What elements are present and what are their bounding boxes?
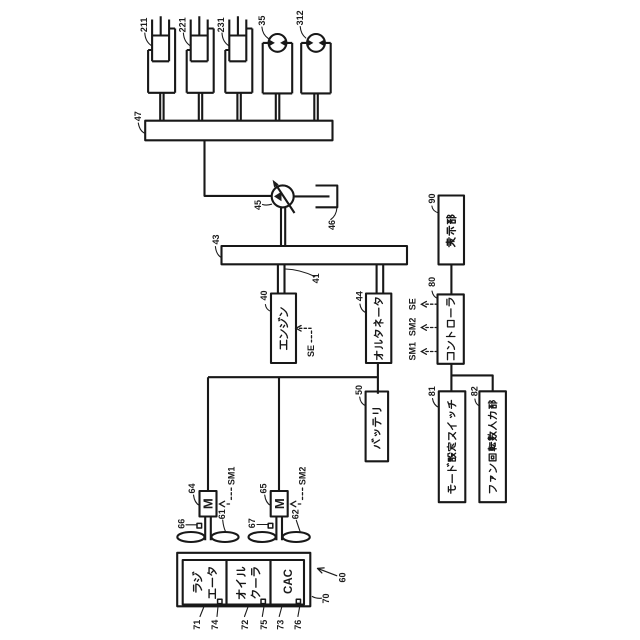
leader 40: [265, 305, 271, 312]
leader 74: [217, 607, 218, 617]
svg-text:312: 312: [295, 10, 305, 25]
dashed arrow SE to engine 40: [296, 326, 312, 343]
leader 44: [360, 304, 366, 313]
leader 90: [432, 206, 439, 213]
leader 35: [262, 27, 268, 39]
label 90: [427, 193, 437, 203]
mode setting switch 81 box: [439, 391, 466, 502]
svg-text:44: 44: [355, 291, 365, 301]
svg-text:66: 66: [176, 519, 186, 529]
fan 61 shaft: [205, 517, 211, 541]
svg-text:65: 65: [258, 483, 268, 493]
shaft 43: [222, 246, 408, 264]
leader 80: [432, 291, 438, 299]
svg-text:46: 46: [327, 220, 337, 230]
label 50: [354, 385, 364, 395]
label 73: [276, 620, 286, 630]
leader 76: [298, 607, 300, 617]
wire controller 80 to switch 81 and input 82: [451, 364, 492, 392]
alternator 44 box: [366, 294, 391, 364]
control valve 47: [145, 121, 332, 141]
leader 75: [262, 607, 264, 617]
leader 65: [265, 495, 271, 506]
svg-text:73: 73: [276, 620, 286, 630]
svg-text:231: 231: [216, 17, 226, 32]
svg-text:SM2: SM2: [298, 467, 308, 486]
text fan speed input unit in box 82: [488, 401, 497, 493]
label SM1 at fan motor 64: [226, 467, 236, 486]
label 70: [321, 593, 331, 603]
label 40: [259, 290, 269, 300]
dashed arrow SE to controller 80: [421, 301, 437, 307]
leader 231: [222, 33, 229, 46]
label 211: [139, 18, 149, 33]
label 66: [176, 519, 186, 529]
leader 73: [279, 607, 282, 617]
display unit 90 box: [439, 196, 465, 265]
leader 67: [257, 524, 268, 526]
oil cooler 72 box: [227, 560, 271, 605]
dashed arrow SM2 to fan motor 65: [291, 488, 303, 507]
svg-text:45: 45: [253, 200, 263, 210]
label 312: [295, 10, 305, 25]
dashed arrow SM2 to controller 80: [421, 325, 437, 331]
text controller (kontoroora) in box 80: [447, 298, 455, 359]
label 60: [338, 572, 348, 582]
label 44: [355, 291, 365, 301]
svg-text:75: 75: [259, 620, 269, 630]
leader 66: [186, 524, 197, 526]
leader 312: [300, 27, 306, 39]
svg-text:35: 35: [257, 16, 267, 26]
sensor square 74: [218, 599, 222, 603]
sensor square 67: [268, 523, 273, 528]
label CAC in box 73: [283, 569, 295, 594]
svg-text:50: 50: [354, 385, 364, 395]
label 80: [427, 277, 437, 287]
svg-text:72: 72: [240, 620, 250, 630]
fan 62 blades: [249, 532, 310, 542]
svg-text:61: 61: [217, 509, 227, 519]
svg-text:82: 82: [469, 386, 479, 396]
dashed arrow SM1 to controller 80: [421, 349, 437, 355]
svg-text:70: 70: [321, 593, 331, 603]
label M in box 65: [272, 498, 287, 509]
label 62: [291, 509, 301, 519]
sensor square 76: [296, 599, 300, 603]
leader 211: [145, 33, 152, 46]
label SM1 at controller: [408, 342, 418, 361]
leader 41: [286, 269, 315, 277]
text mode setting switch in box 81: [447, 400, 456, 493]
label 45: [253, 200, 263, 210]
wire pipes motor 312 to valve 47: [314, 93, 318, 120]
label SM2 at controller: [408, 318, 418, 337]
svg-text:43: 43: [211, 234, 221, 244]
text engine (enjin) in box 40: [278, 308, 287, 350]
leader 43: [215, 247, 222, 259]
label 43: [211, 234, 221, 244]
label 65: [258, 483, 268, 493]
label 64: [187, 483, 197, 493]
text oil cooler line 1 (oiru) in box 72: [237, 567, 246, 598]
svg-text:SM1: SM1: [408, 342, 418, 361]
leader 81: [433, 399, 439, 408]
controller 80 box: [438, 294, 464, 363]
sensor square 75: [261, 599, 265, 603]
label 231: [216, 17, 226, 32]
leader 82: [475, 399, 480, 406]
leader 70: [312, 597, 321, 599]
wire pipes cylinder 221 to valve 47: [199, 93, 202, 121]
label 82: [469, 386, 479, 396]
wire alternator 44 to battery 50: [377, 363, 379, 394]
svg-text:SE: SE: [408, 298, 418, 310]
svg-text:211: 211: [139, 18, 149, 33]
wire display 90 to controller 80: [450, 264, 452, 294]
svg-text:81: 81: [427, 386, 437, 396]
wire pump 45 to shaft 43: [281, 207, 285, 246]
leader 221: [183, 33, 190, 46]
wire pipes motor 35 to valve 47: [276, 93, 280, 120]
label 35: [257, 16, 267, 26]
wire pipes cylinder 231 to valve 47: [237, 93, 240, 121]
label 81: [427, 386, 437, 396]
svg-text:90: 90: [427, 193, 437, 203]
leader 46: [331, 208, 337, 220]
leader 47: [138, 123, 145, 134]
svg-text:74: 74: [210, 620, 220, 630]
label 41: [311, 273, 321, 283]
leader 61: [223, 520, 226, 532]
label 67: [247, 518, 257, 528]
svg-text:M: M: [272, 498, 287, 509]
pump 45: [272, 180, 295, 213]
wire pipes cylinder 211 to valve 47: [160, 93, 163, 121]
label SM2 at fan motor 65: [298, 467, 308, 486]
label 61: [217, 509, 227, 519]
text battery (batteri) in box 50: [372, 409, 381, 449]
svg-text:41: 41: [311, 273, 321, 283]
svg-text:60: 60: [338, 572, 348, 582]
sensor square 66: [197, 523, 202, 528]
svg-text:40: 40: [259, 290, 269, 300]
wire shaft 43 to alternator 44: [377, 264, 384, 293]
label 46: [327, 220, 337, 230]
fan 61 blades: [177, 532, 238, 542]
leader 50: [360, 397, 366, 406]
svg-text:M: M: [201, 498, 216, 509]
leader 64: [194, 495, 200, 506]
svg-text:SE: SE: [306, 345, 316, 357]
fan 62 shaft: [276, 517, 282, 541]
CAC 73 box: [271, 560, 305, 605]
text oil cooler line 2 (kuura) in box 72: [251, 568, 259, 598]
arrow 60: [318, 568, 337, 576]
leader 62: [296, 520, 300, 532]
svg-text:62: 62: [291, 509, 301, 519]
label M in box 64: [201, 498, 216, 509]
cylinder 231: [225, 16, 252, 93]
text display unit (hyoujibu) in box 90: [446, 215, 456, 246]
svg-text:64: 64: [187, 483, 197, 493]
label SE at controller: [408, 298, 418, 310]
svg-text:76: 76: [293, 620, 303, 630]
svg-text:221: 221: [178, 17, 188, 32]
tank 46: [316, 186, 338, 208]
svg-text:71: 71: [192, 620, 202, 630]
label 221: [178, 17, 188, 32]
svg-text:SM1: SM1: [226, 467, 236, 486]
text radiator line 1 (raji) in box 71: [193, 572, 202, 592]
label 75: [259, 620, 269, 630]
wire power bus to fan motors: [208, 377, 378, 491]
cylinder 211: [148, 16, 175, 93]
svg-text:47: 47: [133, 111, 143, 121]
label 47: [133, 111, 143, 121]
leader 72: [245, 607, 249, 617]
label 71: [192, 620, 202, 630]
motor 312: [301, 34, 331, 93]
fan motor M 65 box: [271, 491, 288, 517]
leader 71: [200, 607, 204, 617]
dashed arrow SM1 to fan motor 64: [220, 488, 232, 507]
fan speed input 82 box: [479, 391, 506, 502]
svg-text:CAC: CAC: [283, 569, 295, 594]
svg-text:80: 80: [427, 277, 437, 287]
label 72: [240, 620, 250, 630]
label SE at engine: [306, 345, 316, 357]
fan motor M 64 box: [200, 491, 217, 517]
battery 50 box: [366, 392, 389, 462]
wire valve 47 to pump 45: [205, 140, 272, 196]
text alternator (orutaneeta) in box 44: [374, 298, 383, 360]
radiator 71 box: [183, 560, 227, 605]
cylinder 221: [187, 16, 214, 93]
leader 45: [263, 203, 272, 206]
heat exchanger unit 70 outer box: [177, 553, 310, 607]
label 76: [293, 620, 303, 630]
label 74: [210, 620, 220, 630]
wire shaft 43 to engine 40: [278, 264, 285, 293]
engine 40 box: [271, 294, 296, 364]
svg-text:SM2: SM2: [408, 318, 418, 337]
svg-text:67: 67: [247, 518, 257, 528]
motor 35: [263, 34, 293, 93]
text radiator line 2 (eeta) in box 71: [208, 568, 216, 599]
wire pump 45 to tank 46: [294, 195, 330, 197]
